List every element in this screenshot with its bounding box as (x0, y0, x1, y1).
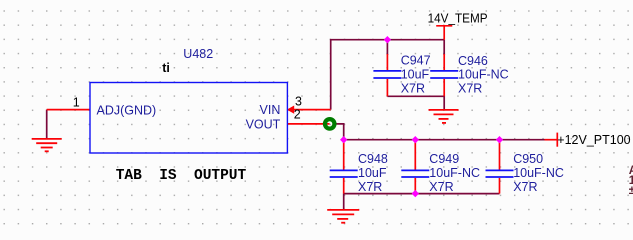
svg-text:C949: C949 (429, 152, 459, 166)
svg-text:14V_TEMP: 14V_TEMP (428, 11, 488, 25)
svg-text:C948: C948 (358, 152, 388, 166)
svg-text:10uF: 10uF (358, 166, 387, 180)
svg-text:C946: C946 (458, 54, 488, 68)
svg-text:1: 1 (73, 95, 80, 109)
svg-text:X7R: X7R (401, 82, 425, 96)
svg-text:C950: C950 (513, 152, 543, 166)
svg-text:±: ± (629, 185, 633, 197)
svg-text:ADJ(GND): ADJ(GND) (97, 104, 157, 118)
svg-text:U482: U482 (183, 47, 213, 61)
svg-text:VIN: VIN (260, 103, 281, 117)
svg-text:TAB IS OUTPUT: TAB IS OUTPUT (116, 168, 247, 184)
svg-text:C947: C947 (401, 54, 431, 68)
svg-text:2: 2 (294, 108, 301, 122)
svg-text:10uF-NC: 10uF-NC (458, 68, 509, 82)
svg-text:10uF: 10uF (401, 68, 430, 82)
svg-text:+12V_PT100: +12V_PT100 (557, 133, 630, 147)
svg-text:3: 3 (295, 94, 302, 108)
svg-text:X7R: X7R (429, 180, 453, 194)
svg-text:X7R: X7R (513, 180, 537, 194)
svg-text:VOUT: VOUT (246, 118, 281, 132)
svg-text:10uF-NC: 10uF-NC (429, 166, 480, 180)
svg-text:10uF-NC: 10uF-NC (513, 166, 564, 180)
svg-text:ti: ti (162, 61, 170, 75)
svg-text:X7R: X7R (358, 180, 382, 194)
svg-text:X7R: X7R (458, 81, 482, 95)
